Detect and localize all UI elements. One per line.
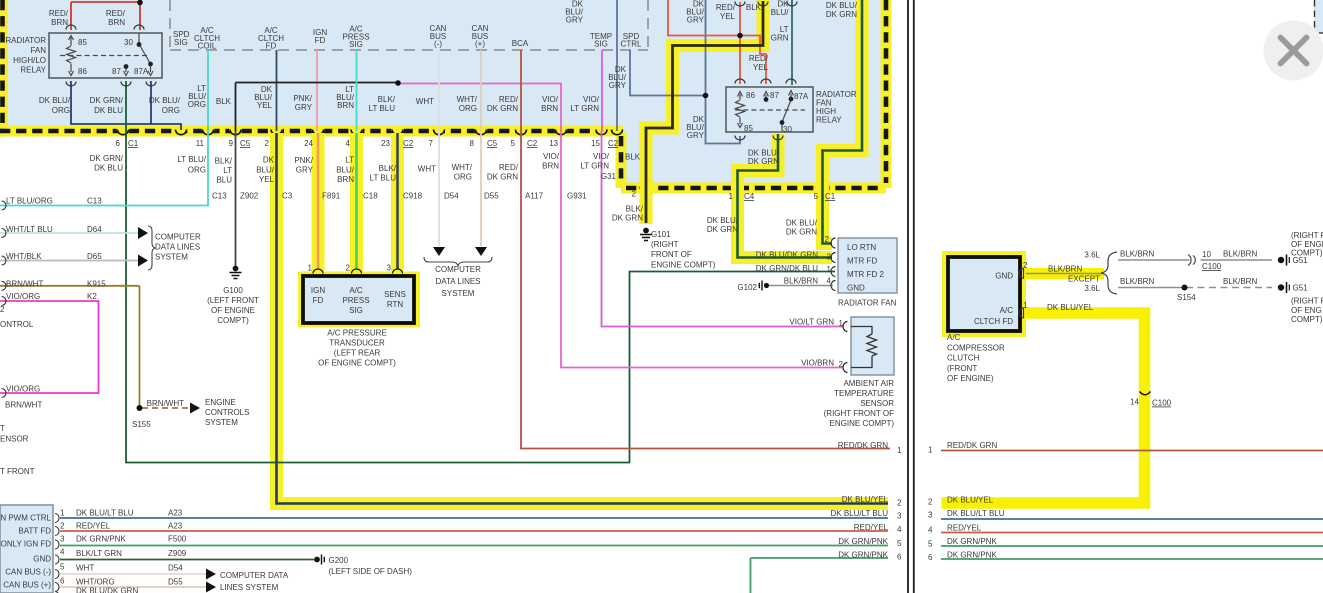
svg-text:C1: C1 xyxy=(128,139,139,148)
svg-text:RED/: RED/ xyxy=(716,3,736,12)
svg-text:DK GRN/PNK: DK GRN/PNK xyxy=(76,535,126,544)
svg-text:WHT/ORG: WHT/ORG xyxy=(76,578,115,587)
svg-text:1: 1 xyxy=(827,265,832,274)
svg-text:6: 6 xyxy=(897,553,902,562)
svg-text:FD: FD xyxy=(266,42,277,51)
svg-text:23: 23 xyxy=(381,139,390,148)
svg-text:LT: LT xyxy=(345,156,354,165)
svg-text:BLK/BRN: BLK/BRN xyxy=(1120,277,1154,286)
svg-text:BLK/BRN: BLK/BRN xyxy=(1223,250,1257,259)
svg-text:FD: FD xyxy=(313,296,324,305)
svg-text:G102: G102 xyxy=(737,283,757,292)
svg-text:BLK/LT GRN: BLK/LT GRN xyxy=(76,549,122,558)
svg-text:DK GRN: DK GRN xyxy=(786,228,817,237)
svg-text:C13: C13 xyxy=(212,192,227,201)
svg-text:RELAY: RELAY xyxy=(20,66,46,75)
svg-text:BRN: BRN xyxy=(337,101,354,110)
svg-text:1: 1 xyxy=(729,192,734,201)
svg-text:YEL: YEL xyxy=(257,101,273,110)
svg-text:5: 5 xyxy=(928,540,933,549)
svg-text:5: 5 xyxy=(511,139,516,148)
svg-text:1: 1 xyxy=(897,446,902,455)
svg-text:5: 5 xyxy=(814,192,819,201)
svg-text:BATT FD: BATT FD xyxy=(18,527,51,536)
svg-text:D55: D55 xyxy=(168,578,183,587)
svg-text:SENS: SENS xyxy=(384,290,406,299)
svg-text:BRN: BRN xyxy=(108,18,125,27)
svg-text:RED/: RED/ xyxy=(499,95,519,104)
svg-text:BRN: BRN xyxy=(337,175,354,184)
svg-text:ORG: ORG xyxy=(459,104,477,113)
svg-text:6: 6 xyxy=(60,577,65,586)
svg-text:2: 2 xyxy=(0,305,5,314)
svg-text:G51: G51 xyxy=(1293,284,1309,293)
svg-text:OF ENGINE): OF ENGINE) xyxy=(947,374,994,383)
svg-text:3: 3 xyxy=(897,512,902,521)
svg-text:C918: C918 xyxy=(403,192,423,201)
svg-text:OF ENGINE COMPT): OF ENGINE COMPT) xyxy=(318,359,396,368)
svg-text:C2: C2 xyxy=(527,139,538,148)
svg-text:13: 13 xyxy=(549,139,558,148)
svg-text:VIO/LT GRN: VIO/LT GRN xyxy=(789,318,834,327)
svg-text:VIO/BRN: VIO/BRN xyxy=(801,359,834,368)
svg-text:C3: C3 xyxy=(282,192,293,201)
svg-text:T: T xyxy=(0,424,5,433)
svg-text:RELAY: RELAY xyxy=(816,116,842,125)
svg-text:2: 2 xyxy=(632,190,637,199)
svg-text:CONTROLS: CONTROLS xyxy=(205,408,249,417)
svg-text:ENGINE: ENGINE xyxy=(205,398,236,407)
svg-text:RED/DK GRN: RED/DK GRN xyxy=(947,441,997,450)
svg-text:DK GRN/: DK GRN/ xyxy=(90,96,124,105)
svg-text:DK GRN: DK GRN xyxy=(612,214,643,223)
svg-text:ENGINE COMPT): ENGINE COMPT) xyxy=(651,261,716,270)
svg-text:BLU/: BLU/ xyxy=(771,8,790,17)
svg-text:VIO/ORG: VIO/ORG xyxy=(6,292,40,301)
svg-text:87A: 87A xyxy=(794,92,809,101)
svg-text:2: 2 xyxy=(60,522,65,531)
svg-text:30: 30 xyxy=(783,125,792,134)
svg-text:COMPUTER: COMPUTER xyxy=(155,233,201,242)
svg-text:BRN/WHT: BRN/WHT xyxy=(147,399,184,408)
svg-text:ORG: ORG xyxy=(188,100,206,109)
svg-text:4: 4 xyxy=(346,139,351,148)
svg-text:DK GRN/PNK: DK GRN/PNK xyxy=(947,551,997,560)
svg-text:BRN/WHT: BRN/WHT xyxy=(6,280,43,289)
svg-text:G200: G200 xyxy=(329,556,349,565)
svg-text:GRY: GRY xyxy=(687,131,705,140)
svg-text:G31: G31 xyxy=(601,172,617,181)
svg-text:BRN: BRN xyxy=(541,104,558,113)
svg-text:VIO/: VIO/ xyxy=(593,152,610,161)
svg-text:A/C: A/C xyxy=(349,286,363,295)
svg-text:SYSTEM: SYSTEM xyxy=(155,253,188,262)
svg-text:A23: A23 xyxy=(168,522,183,531)
svg-text:RED/YEL: RED/YEL xyxy=(947,524,982,533)
svg-text:DK GRN/PNK: DK GRN/PNK xyxy=(947,537,997,546)
svg-text:VIO/: VIO/ xyxy=(543,152,560,161)
svg-text:RTN: RTN xyxy=(387,300,404,309)
svg-text:(LEFT REAR: (LEFT REAR xyxy=(334,349,381,358)
svg-text:VIO/ORG: VIO/ORG xyxy=(6,385,40,394)
svg-text:G100: G100 xyxy=(223,286,243,295)
svg-text:DK GRN: DK GRN xyxy=(707,225,738,234)
svg-text:DK BLU/DK GRN: DK BLU/DK GRN xyxy=(76,587,138,593)
svg-text:DK BLU/LT BLU: DK BLU/LT BLU xyxy=(947,509,1005,518)
svg-text:DK BLU: DK BLU xyxy=(94,106,123,115)
svg-text:1: 1 xyxy=(308,264,313,273)
svg-text:C100: C100 xyxy=(1202,262,1222,271)
svg-text:(RIGHT F: (RIGHT F xyxy=(1291,297,1323,306)
svg-text:FD: FD xyxy=(315,36,326,45)
svg-text:C18: C18 xyxy=(363,192,378,201)
svg-text:COMPRESSOR: COMPRESSOR xyxy=(947,344,1005,353)
svg-text:PRESS: PRESS xyxy=(342,296,369,305)
svg-text:LT GRN: LT GRN xyxy=(580,162,609,171)
svg-text:YEL: YEL xyxy=(259,175,275,184)
svg-text:VIO/: VIO/ xyxy=(542,95,559,104)
svg-text:Z902: Z902 xyxy=(240,192,259,201)
svg-text:S154: S154 xyxy=(1177,293,1196,302)
svg-text:C2: C2 xyxy=(403,139,414,148)
svg-text:DK BLU/: DK BLU/ xyxy=(39,96,71,105)
svg-text:RED/DK GRN: RED/DK GRN xyxy=(838,441,888,450)
svg-text:RED/: RED/ xyxy=(106,9,126,18)
svg-text:HIGH/LO: HIGH/LO xyxy=(13,56,46,65)
svg-text:MTR FD 2: MTR FD 2 xyxy=(847,270,884,279)
svg-text:87A: 87A xyxy=(134,67,149,76)
svg-text:A/C PRESSURE: A/C PRESSURE xyxy=(327,329,387,338)
svg-text:T FRONT: T FRONT xyxy=(0,467,35,476)
svg-text:2: 2 xyxy=(825,235,830,244)
svg-text:15: 15 xyxy=(591,139,600,148)
svg-text:ENGINE COMPT): ENGINE COMPT) xyxy=(830,419,895,428)
svg-text:1: 1 xyxy=(839,319,844,328)
svg-text:BLU/: BLU/ xyxy=(336,166,355,175)
svg-text:LT GRN: LT GRN xyxy=(570,104,599,113)
svg-text:DK GRN/PNK: DK GRN/PNK xyxy=(838,537,888,546)
svg-text:DK BLU/YEL: DK BLU/YEL xyxy=(947,496,994,505)
svg-text:A/C: A/C xyxy=(1000,306,1014,315)
svg-text:WHT/LT BLU: WHT/LT BLU xyxy=(6,225,53,234)
svg-text:ORG: ORG xyxy=(162,106,180,115)
svg-text:A/C: A/C xyxy=(947,333,961,342)
svg-text:GRN: GRN xyxy=(771,34,789,43)
svg-text:D64: D64 xyxy=(87,225,102,234)
svg-text:DK GRN: DK GRN xyxy=(487,173,518,182)
svg-text:6: 6 xyxy=(116,139,121,148)
svg-text:3: 3 xyxy=(827,253,832,262)
svg-text:(RIGHT: (RIGHT xyxy=(651,240,679,249)
svg-text:86: 86 xyxy=(78,67,87,76)
svg-text:BLK/: BLK/ xyxy=(378,95,396,104)
svg-text:ONLY IGN FD: ONLY IGN FD xyxy=(1,540,52,549)
svg-text:14: 14 xyxy=(1130,398,1139,407)
svg-text:GRY: GRY xyxy=(296,166,314,175)
svg-text:YEL: YEL xyxy=(753,63,769,72)
svg-text:C100: C100 xyxy=(1152,399,1172,408)
svg-text:DK BLU/: DK BLU/ xyxy=(826,1,858,10)
svg-text:BRN/WHT: BRN/WHT xyxy=(5,401,42,410)
svg-text:LT BLU: LT BLU xyxy=(369,104,396,113)
svg-text:COMPUTER: COMPUTER xyxy=(435,265,481,274)
svg-text:SIG: SIG xyxy=(349,306,363,315)
svg-text:87: 87 xyxy=(770,91,779,100)
svg-text:S155: S155 xyxy=(132,420,151,429)
svg-text:FRONT OF: FRONT OF xyxy=(651,250,692,259)
svg-text:SYSTEM: SYSTEM xyxy=(205,418,238,427)
svg-text:LT BLU: LT BLU xyxy=(370,174,397,183)
svg-text:BLK/BRN: BLK/BRN xyxy=(1223,277,1257,286)
svg-text:(-): (-) xyxy=(434,40,442,49)
svg-text:VIO/: VIO/ xyxy=(583,95,600,104)
svg-text:2: 2 xyxy=(839,360,844,369)
svg-text:DK BLU/: DK BLU/ xyxy=(786,219,818,228)
svg-text:DK BLU: DK BLU xyxy=(94,164,123,173)
svg-text:COMPT): COMPT) xyxy=(1291,315,1323,324)
svg-text:F500: F500 xyxy=(168,535,187,544)
svg-text:BLK/: BLK/ xyxy=(626,205,644,214)
svg-text:85: 85 xyxy=(744,124,753,133)
svg-text:COMPUTER DATA: COMPUTER DATA xyxy=(220,571,289,580)
svg-text:RED/: RED/ xyxy=(49,9,69,18)
svg-text:DK BLU/LT BLU: DK BLU/LT BLU xyxy=(830,509,888,518)
svg-text:D65: D65 xyxy=(87,252,102,261)
svg-text:11: 11 xyxy=(196,139,205,148)
svg-text:WHT: WHT xyxy=(416,97,434,106)
svg-text:(LEFT FRONT: (LEFT FRONT xyxy=(207,296,259,305)
svg-text:SIG: SIG xyxy=(349,40,363,49)
svg-text:A23: A23 xyxy=(168,509,183,518)
svg-text:D54: D54 xyxy=(168,564,183,573)
svg-text:DK BLU/: DK BLU/ xyxy=(149,96,181,105)
svg-text:LT BLU/ORG: LT BLU/ORG xyxy=(6,197,53,206)
svg-text:1: 1 xyxy=(1023,301,1028,310)
svg-text:RED/YEL: RED/YEL xyxy=(76,522,111,531)
svg-text:WHT/BLK: WHT/BLK xyxy=(6,252,42,261)
svg-text:4: 4 xyxy=(928,526,933,535)
svg-text:BLU: BLU xyxy=(216,176,232,185)
svg-text:10: 10 xyxy=(1202,250,1211,259)
svg-text:YEL: YEL xyxy=(720,12,736,21)
svg-text:CLTCH FD: CLTCH FD xyxy=(974,317,1013,326)
svg-text:GRY: GRY xyxy=(609,81,627,90)
svg-text:7: 7 xyxy=(429,139,434,148)
svg-text:3: 3 xyxy=(60,535,65,544)
svg-text:DK BLU/DK GRN: DK BLU/DK GRN xyxy=(756,251,818,260)
svg-text:D54: D54 xyxy=(444,192,459,201)
svg-text:DK BLU/LT BLU: DK BLU/LT BLU xyxy=(76,509,134,518)
svg-text:RED/YEL: RED/YEL xyxy=(854,523,889,532)
svg-text:FAN: FAN xyxy=(30,46,46,55)
svg-text:LT BLU/: LT BLU/ xyxy=(177,155,206,164)
svg-text:(+): (+) xyxy=(475,40,485,49)
svg-text:MTR FD: MTR FD xyxy=(847,257,877,266)
svg-text:BLK: BLK xyxy=(625,153,641,162)
svg-text:GND: GND xyxy=(995,272,1013,281)
svg-text:BCA: BCA xyxy=(512,39,529,48)
svg-text:LO RTN: LO RTN xyxy=(847,243,876,252)
svg-text:C1: C1 xyxy=(825,192,836,201)
svg-text:SIG: SIG xyxy=(594,40,608,49)
svg-text:Z909: Z909 xyxy=(168,549,187,558)
svg-text:ENSOR: ENSOR xyxy=(0,435,29,444)
svg-text:OF ENGINE: OF ENGINE xyxy=(211,306,255,315)
svg-text:(RIGHT F: (RIGHT F xyxy=(1291,231,1323,240)
svg-text:K915: K915 xyxy=(87,280,106,289)
svg-text:5: 5 xyxy=(897,539,902,548)
svg-text:1: 1 xyxy=(60,509,65,518)
svg-text:OF ENG: OF ENG xyxy=(1291,306,1322,315)
svg-text:3: 3 xyxy=(928,511,933,520)
svg-text:85: 85 xyxy=(78,38,87,47)
svg-text:DK GRN: DK GRN xyxy=(487,104,518,113)
svg-text:3.6L: 3.6L xyxy=(1084,284,1100,293)
svg-text:BLK/: BLK/ xyxy=(215,157,233,166)
svg-text:SIG: SIG xyxy=(174,38,188,47)
svg-text:DK BLU/YEL: DK BLU/YEL xyxy=(842,495,889,504)
svg-text:N PWM CTRL: N PWM CTRL xyxy=(0,514,51,523)
svg-text:GRY: GRY xyxy=(566,16,584,25)
svg-text:86: 86 xyxy=(746,91,755,100)
svg-text:(RIGHT FRONT OF: (RIGHT FRONT OF xyxy=(824,409,894,418)
svg-text:4: 4 xyxy=(827,277,832,286)
svg-text:PNK/: PNK/ xyxy=(294,156,313,165)
svg-text:ORG: ORG xyxy=(188,166,206,175)
svg-text:COMPT): COMPT) xyxy=(1291,249,1323,258)
svg-text:BLK: BLK xyxy=(746,3,762,12)
svg-text:BLK/: BLK/ xyxy=(379,164,397,173)
svg-text:2: 2 xyxy=(265,139,270,148)
svg-text:WHT: WHT xyxy=(418,165,436,174)
svg-text:GND: GND xyxy=(33,555,51,564)
svg-text:C2: C2 xyxy=(608,139,619,148)
svg-text:GRY: GRY xyxy=(295,103,313,112)
svg-text:3.6L: 3.6L xyxy=(1084,251,1100,260)
svg-text:BRN: BRN xyxy=(542,162,559,171)
svg-text:CAN BUS (+): CAN BUS (+) xyxy=(3,581,51,590)
svg-text:DK GRN/DK BLU: DK GRN/DK BLU xyxy=(756,264,818,273)
svg-text:F891: F891 xyxy=(322,192,341,201)
svg-text:ONTROL: ONTROL xyxy=(0,320,34,329)
svg-text:CTRL: CTRL xyxy=(621,40,642,49)
svg-text:WHT: WHT xyxy=(76,564,94,573)
svg-text:DATA LINES: DATA LINES xyxy=(155,243,200,252)
svg-text:4: 4 xyxy=(897,525,902,534)
svg-text:DATA LINES: DATA LINES xyxy=(435,277,480,286)
svg-text:BLK: BLK xyxy=(216,97,232,106)
svg-text:SYSTEM: SYSTEM xyxy=(442,289,475,298)
svg-text:2: 2 xyxy=(1023,261,1028,270)
svg-text:1: 1 xyxy=(928,446,933,455)
svg-text:DK: DK xyxy=(263,156,275,165)
svg-text:WHT/: WHT/ xyxy=(452,163,473,172)
svg-text:9: 9 xyxy=(229,139,234,148)
svg-text:DK GRN/: DK GRN/ xyxy=(90,154,124,163)
svg-text:DK BLU/: DK BLU/ xyxy=(707,216,739,225)
svg-text:(FRONT: (FRONT xyxy=(947,364,977,373)
svg-text:BLK/BRN: BLK/BRN xyxy=(784,277,818,286)
svg-text:4: 4 xyxy=(60,548,65,557)
svg-text:DK GRN: DK GRN xyxy=(826,10,857,19)
svg-text:C5: C5 xyxy=(487,139,498,148)
svg-text:DK BLU/YEL: DK BLU/YEL xyxy=(1047,303,1094,312)
svg-text:87: 87 xyxy=(112,67,121,76)
svg-text:IGN: IGN xyxy=(311,286,325,295)
svg-text:LT: LT xyxy=(223,166,232,175)
svg-text:CAN BUS (-): CAN BUS (-) xyxy=(5,568,51,577)
svg-text:2: 2 xyxy=(346,264,351,273)
svg-text:BLK/BRN: BLK/BRN xyxy=(1048,265,1082,274)
svg-text:RED/: RED/ xyxy=(749,54,769,63)
svg-text:RADIATOR: RADIATOR xyxy=(5,36,46,45)
svg-text:GND: GND xyxy=(847,284,865,293)
svg-text:2: 2 xyxy=(928,498,933,507)
svg-text:AMBIENT AIR: AMBIENT AIR xyxy=(843,379,894,388)
svg-text:G101: G101 xyxy=(651,230,671,239)
svg-text:CLUTCH: CLUTCH xyxy=(947,354,980,363)
svg-text:2: 2 xyxy=(897,499,902,508)
svg-text:ORG: ORG xyxy=(454,173,472,182)
svg-text:RADIATOR FAN: RADIATOR FAN xyxy=(838,299,897,308)
svg-text:SENSOR: SENSOR xyxy=(860,399,894,408)
svg-text:BRN: BRN xyxy=(51,18,68,27)
svg-text:TRANSDUCER: TRANSDUCER xyxy=(329,339,385,348)
svg-text:3: 3 xyxy=(387,264,392,273)
svg-text:C5: C5 xyxy=(240,139,251,148)
svg-text:C13: C13 xyxy=(87,197,102,206)
svg-text:DK GRN: DK GRN xyxy=(748,157,779,166)
svg-text:COMPT): COMPT) xyxy=(217,316,249,325)
svg-text:30: 30 xyxy=(124,38,133,47)
svg-text:C4: C4 xyxy=(744,192,755,201)
svg-text:K2: K2 xyxy=(87,292,97,301)
svg-text:LINES SYSTEM: LINES SYSTEM xyxy=(220,583,279,592)
svg-text:COIL: COIL xyxy=(198,42,217,51)
svg-text:5: 5 xyxy=(60,563,65,572)
svg-text:(LEFT SIDE OF DASH): (LEFT SIDE OF DASH) xyxy=(329,567,413,576)
svg-text:D55: D55 xyxy=(484,192,499,201)
svg-text:GRY: GRY xyxy=(687,16,705,25)
svg-text:G931: G931 xyxy=(567,192,587,201)
svg-text:6: 6 xyxy=(928,553,933,562)
svg-text:ORG: ORG xyxy=(52,106,70,115)
svg-text:DK GRN/PNK: DK GRN/PNK xyxy=(838,551,888,560)
svg-text:TEMPERATURE: TEMPERATURE xyxy=(834,389,894,398)
svg-text:8: 8 xyxy=(470,139,475,148)
svg-text:24: 24 xyxy=(304,139,313,148)
svg-text:WHT/: WHT/ xyxy=(457,95,478,104)
svg-text:EXCEPT: EXCEPT xyxy=(1068,275,1100,284)
svg-text:BLK/BRN: BLK/BRN xyxy=(1120,250,1154,259)
svg-text:PNK/: PNK/ xyxy=(293,94,312,103)
svg-text:RED/: RED/ xyxy=(499,163,519,172)
svg-text:BLU/: BLU/ xyxy=(256,166,275,175)
svg-text:A117: A117 xyxy=(525,192,544,201)
